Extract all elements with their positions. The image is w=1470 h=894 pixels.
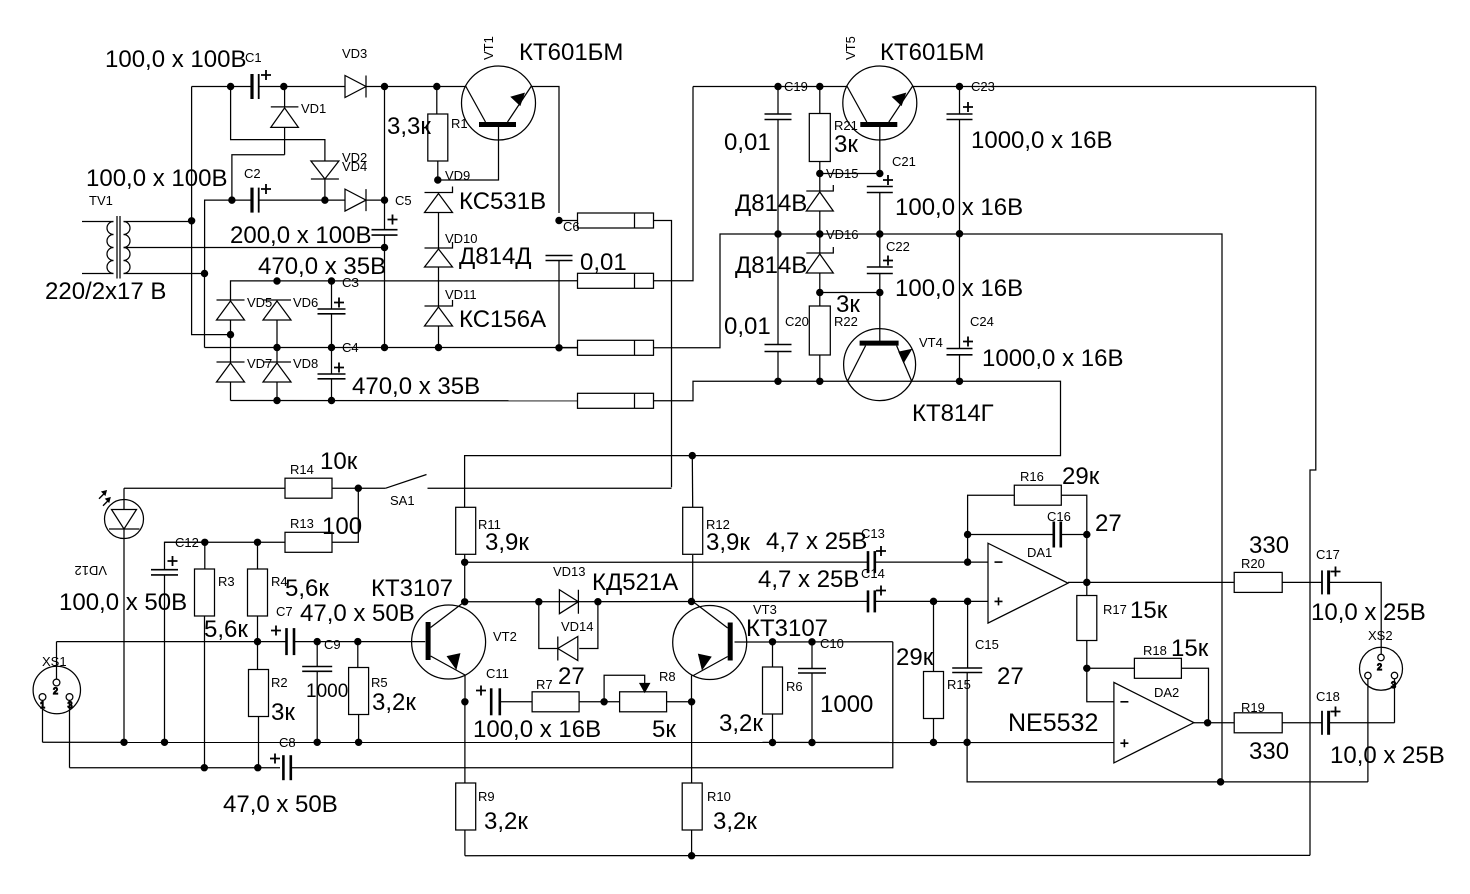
resistor R2	[249, 670, 269, 717]
wire C13 to DA1 minus	[875, 561, 988, 563]
wire VT1 emitter to C6 column	[531, 87, 559, 214]
svg-text:0,01: 0,01	[580, 249, 627, 276]
wire VD11 to mid rail	[438, 326, 440, 348]
resistor R6	[763, 667, 783, 714]
node VT4 base node	[877, 289, 883, 295]
value label 100,0 x 16В (C11)	[473, 716, 601, 743]
switch SA1 label	[390, 493, 415, 508]
wire XS2 pin1 lead	[1367, 679, 1369, 782]
value label 3,3к (R1)	[387, 113, 431, 140]
type label КТ601БМ (VT1)	[519, 39, 623, 66]
svg-text:3,2к: 3,2к	[372, 689, 416, 716]
value label 100,0 x 100В (C2)	[86, 165, 227, 192]
resistor R14 label	[290, 462, 314, 477]
node mid rail VD15-VD16	[817, 231, 823, 237]
resistor R15	[924, 672, 944, 719]
resistor R3	[195, 569, 215, 616]
node C9 junction	[314, 639, 320, 645]
svg-text:КТ814Г: КТ814Г	[912, 400, 994, 427]
value label 10,0 x 25В (C17)	[1311, 599, 1426, 626]
wire LED column	[123, 488, 125, 509]
svg-text:15к: 15к	[1130, 597, 1168, 624]
svg-text:10,0 x 25В: 10,0 x 25В	[1330, 742, 1445, 769]
wire return rail right	[291, 642, 893, 768]
wire return rail	[70, 767, 281, 769]
resistor R1 label	[451, 116, 468, 131]
svg-text:NE5532: NE5532	[1008, 709, 1098, 737]
diode VD15 label	[826, 166, 859, 181]
svg-text:4,7 x 25В: 4,7 x 25В	[758, 566, 859, 593]
wire C1 right to VD3	[260, 86, 346, 88]
wire LED to ground rail	[123, 529, 125, 742]
value label 3к (R21)	[834, 131, 858, 158]
value label 5,6к (R3)	[204, 616, 248, 643]
wire XS1 pin2 to input row	[56, 642, 58, 679]
capacitor C5	[372, 230, 398, 235]
diode VD4 label	[342, 159, 367, 174]
capacitor C2 label	[244, 166, 261, 181]
wire C10 bottom stem	[811, 673, 813, 743]
diode VD13 label	[553, 564, 586, 579]
wire R10 bottom	[691, 830, 693, 856]
svg-text:47,0 x 50В: 47,0 x 50В	[223, 791, 338, 818]
wire C15 bottom stem	[966, 673, 968, 743]
capacitor C7 label	[276, 604, 293, 619]
wire zener mid rail right	[778, 234, 1222, 782]
zener VD9	[425, 187, 453, 213]
svg-text:VD13: VD13	[553, 564, 586, 579]
svg-text:C5: C5	[395, 193, 412, 208]
resistor R10 label	[707, 789, 731, 804]
plus sign C23	[963, 102, 973, 112]
type label КС531В	[459, 188, 546, 215]
value label 27 (C15)	[997, 663, 1024, 690]
svg-text:VT4: VT4	[919, 335, 943, 350]
zener VD10	[425, 242, 453, 267]
node C5 top junction	[381, 197, 387, 203]
node VD13 right stub	[595, 599, 601, 605]
svg-text:R22: R22	[834, 314, 858, 329]
resistor R22	[809, 306, 830, 355]
wire VT3 collector to C14	[692, 600, 869, 602]
wire C5 bottom to mid rail	[384, 235, 386, 347]
capacitor C18 label	[1316, 689, 1340, 704]
wire C19 bottom stem	[777, 120, 779, 235]
node mid rail C23-C24	[956, 231, 962, 237]
plus sign C4	[334, 363, 344, 373]
value label 3,2к (R6)	[719, 710, 763, 737]
transistor VT3 label	[753, 602, 777, 617]
capacitor C13 label	[861, 526, 885, 541]
transistor VT4 label	[919, 335, 943, 350]
transistor VT2 label	[493, 629, 517, 644]
zener VD11	[425, 300, 453, 326]
capacitor C16	[1054, 522, 1061, 548]
wire center-tap column to mid rail	[204, 274, 206, 348]
wire C20 bottom stem	[777, 352, 779, 382]
wire C22 bottom stem	[879, 274, 881, 293]
node VD5-VD7 junction	[227, 332, 233, 338]
wire R1 bottom	[437, 161, 439, 180]
wire R8 to VT3 emitter	[667, 701, 692, 703]
wire R12 bottom stub	[692, 555, 694, 601]
svg-text:VD8: VD8	[293, 356, 318, 371]
wire VD16-R22 to C22 link	[820, 292, 880, 294]
diode VD1 label	[301, 101, 326, 116]
value label 0,01 (C19)	[724, 129, 771, 156]
wire C15 top stem	[967, 601, 969, 668]
type label КТ3107 (VT3)	[746, 615, 828, 642]
value label 3к (R2)	[271, 699, 295, 726]
capacitor C9	[302, 667, 332, 672]
capacitor C14 label	[861, 566, 885, 581]
node VD15 top	[817, 170, 823, 176]
wire R16 right	[1061, 495, 1087, 534]
connector XS2 label	[1368, 628, 1393, 643]
node gnd C12	[161, 739, 167, 745]
wire bias rail	[165, 541, 258, 543]
svg-text:VT1: VT1	[481, 36, 496, 60]
wire VT5 emitter link	[820, 173, 880, 175]
value label 0,01 (C20)	[724, 313, 771, 340]
wire XS1 pin3 to return rail	[69, 701, 71, 768]
svg-text:1000: 1000	[306, 681, 348, 702]
wire VD6 anode	[276, 320, 278, 362]
svg-text:2: 2	[53, 686, 58, 696]
node return R2	[255, 765, 261, 771]
wire C12 bottom stem	[164, 575, 166, 742]
node output common	[1218, 779, 1224, 785]
opamp DA1 label	[1027, 545, 1052, 560]
wire C10 top stem	[811, 642, 813, 669]
plus sign C18	[1331, 707, 1341, 717]
node R4 top	[254, 539, 260, 545]
wire VD1 bottom left-down to C2 row	[232, 155, 285, 200]
wire R3 bottom lead	[204, 616, 206, 768]
wire C16 left link	[968, 534, 1054, 536]
svg-text:КТ3107: КТ3107	[746, 615, 828, 642]
wire secondary center tap	[124, 247, 385, 249]
node C3 top junction	[328, 278, 334, 284]
connector pin row 4	[578, 393, 654, 408]
svg-text:29к: 29к	[1062, 463, 1100, 490]
wire output common to XS2 pin1	[1221, 781, 1368, 783]
type label КТ601БМ (VT5)	[880, 39, 984, 66]
type label КТ814Г	[912, 400, 994, 427]
node R5 top junction	[355, 639, 361, 645]
capacitor C21 label	[892, 154, 916, 169]
capacitor C9 label	[324, 637, 341, 652]
value label 1000 (C9)	[306, 681, 348, 702]
svg-text:C11: C11	[486, 666, 509, 681]
capacitor C2	[252, 188, 259, 213]
wire conn4 right to VT4 rail	[654, 381, 779, 401]
capacitor C13	[868, 551, 875, 573]
wire R4 bottom lead	[257, 616, 259, 670]
svg-text:C8: C8	[279, 735, 296, 750]
node R15 top	[930, 598, 936, 604]
node DA1 output	[1084, 579, 1090, 585]
node secondary-top junction	[189, 218, 195, 224]
wire bridge top rail	[231, 281, 578, 300]
opamp DA2 label	[1154, 685, 1179, 700]
op-amp DA2	[1114, 682, 1194, 763]
capacitor C10 label	[820, 636, 844, 651]
svg-text:100,0 x 16В: 100,0 x 16В	[473, 716, 601, 743]
capacitor C20	[765, 345, 792, 352]
node C24 bottom	[956, 378, 962, 384]
node gnd R5	[356, 739, 362, 745]
capacitor C16 label	[1047, 509, 1071, 524]
node C19 top	[775, 83, 781, 89]
wire C4 bottom stem	[331, 379, 333, 401]
svg-text:C1: C1	[245, 50, 262, 65]
capacitor C11	[491, 688, 500, 715]
svg-text:10к: 10к	[320, 448, 358, 475]
value label 5,6к (R4)	[285, 575, 329, 602]
value label 5к (R8)	[652, 716, 676, 743]
value label 330 (R19)	[1249, 738, 1289, 765]
wire VD3 to VT1 rail	[366, 86, 466, 88]
value label 4,7 x 25В (C13)	[766, 528, 867, 555]
svg-text:R20: R20	[1241, 556, 1265, 571]
svg-text:C13: C13	[861, 526, 885, 541]
wire conn2 right up to top-right rail	[654, 87, 694, 281]
svg-text:470,0 x 35В: 470,0 x 35В	[352, 373, 480, 400]
value label 330 (R20)	[1249, 532, 1289, 559]
diode VD14 label	[561, 619, 594, 634]
svg-text:VD16: VD16	[826, 227, 859, 242]
resistor R11 label	[478, 517, 501, 532]
capacitor C18	[1322, 711, 1329, 735]
wire R15 bottom lead	[933, 719, 935, 743]
connector XS1	[33, 666, 80, 713]
resistor R2 label	[271, 675, 288, 690]
svg-text:10,0 x 25В: 10,0 x 25В	[1311, 599, 1426, 626]
svg-text:1000,0 x 16В: 1000,0 x 16В	[982, 345, 1123, 372]
wire DA1 feedback vertical	[967, 535, 969, 563]
value label 200,0 x 100В	[230, 222, 371, 249]
diode VD16 label	[826, 227, 859, 242]
wire R21 bottom	[819, 162, 821, 192]
value label 100,0 x 16В (C21)	[895, 194, 1023, 221]
node R11 bottom rail	[462, 559, 468, 565]
wire VD15 anode	[819, 211, 821, 253]
wire C2 row to transformer bottom lead	[205, 200, 232, 273]
wire R22 bottom	[819, 355, 821, 381]
wire input row	[57, 641, 287, 643]
resistor R17 label	[1103, 602, 1127, 617]
capacitor C6	[546, 256, 573, 261]
svg-text:VD12: VD12	[74, 563, 107, 578]
node R17-R18	[1084, 665, 1090, 671]
value label 470,0 x 35В (C3)	[258, 253, 386, 280]
wire C14 to DA1 plus	[875, 600, 988, 602]
wire R13 left	[258, 541, 286, 543]
svg-text:VD11: VD11	[445, 287, 477, 302]
value label 3,2к (R10)	[713, 808, 757, 835]
capacitor C15	[952, 668, 982, 673]
diode VD3 label	[342, 46, 367, 61]
value label 27 (VD14)	[558, 663, 585, 690]
svg-text:Д814В: Д814В	[735, 252, 807, 279]
svg-text:R7: R7	[536, 677, 553, 692]
node DA2 output	[1205, 720, 1211, 726]
capacitor C3 label	[342, 275, 359, 290]
type label NE5532	[1008, 709, 1098, 737]
wire C9 top stem	[316, 642, 318, 667]
resistor R12	[683, 507, 703, 554]
node R6 top	[769, 639, 775, 645]
svg-text:330: 330	[1249, 532, 1289, 559]
svg-text:4,7 x 25В: 4,7 x 25В	[766, 528, 867, 555]
svg-text:3к: 3к	[271, 699, 295, 726]
value label 47,0 x 50В (C8)	[223, 791, 338, 818]
svg-text:3к: 3к	[834, 131, 858, 158]
node C20 bottom	[775, 378, 781, 384]
resistor R21 label	[834, 118, 858, 133]
diode VD3	[345, 76, 366, 98]
node gnd C9	[314, 739, 320, 745]
svg-text:C18: C18	[1316, 689, 1340, 704]
diode VD8	[263, 362, 291, 382]
plus sign C7	[271, 626, 281, 636]
diode VD6	[263, 300, 291, 320]
svg-text:200,0 x 100В: 200,0 x 100В	[230, 222, 371, 249]
resistor R9	[456, 783, 476, 830]
connector XS1 label	[42, 654, 67, 669]
wire VD4 to C5 column	[366, 199, 385, 201]
resistor R18 label	[1143, 643, 1167, 658]
svg-text:R8: R8	[659, 669, 676, 684]
capacitor C7	[287, 628, 295, 655]
node R10 bottom	[689, 853, 695, 859]
svg-text:VD5: VD5	[247, 295, 272, 310]
capacitor C6 label	[563, 219, 580, 234]
op-amp DA1	[988, 543, 1068, 623]
node R4-R2-C7	[254, 639, 260, 645]
svg-text:C19: C19	[784, 79, 808, 94]
wire C12 top stem	[165, 542, 205, 569]
svg-text:5,6к: 5,6к	[285, 575, 329, 602]
node gnd C10	[809, 739, 815, 745]
wire conn1 left	[559, 220, 578, 222]
plus sign C1	[261, 70, 271, 80]
node C10 top	[809, 639, 815, 645]
wire ground rail	[43, 741, 1115, 743]
capacitor C10	[798, 669, 826, 674]
resistor R10	[682, 783, 702, 830]
resistor R16 label	[1020, 469, 1044, 484]
svg-text:C15: C15	[975, 637, 999, 652]
svg-text:КТ601БМ: КТ601БМ	[519, 39, 623, 66]
wire XS1 pin1 to ground rail	[42, 701, 44, 743]
wire C9 bottom stem	[316, 671, 318, 742]
value label 3,9к (R12)	[706, 529, 750, 556]
wire C4 top stem	[331, 348, 333, 375]
svg-text:Д814В: Д814В	[735, 190, 807, 217]
wire VD9 to VD10	[438, 213, 440, 249]
wire bridge bottom rail	[231, 400, 578, 402]
wire R16 left	[968, 495, 1015, 534]
svg-text:R18: R18	[1143, 643, 1167, 658]
svg-text:C17: C17	[1316, 547, 1340, 562]
diode VD14	[558, 637, 578, 661]
node return R3	[201, 765, 207, 771]
svg-text:R3: R3	[218, 574, 235, 589]
node VD13 left stub	[536, 599, 542, 605]
capacitor C23 label	[971, 79, 995, 94]
wire conn1 right to bus	[654, 221, 672, 488]
resistor R5 label	[371, 675, 388, 690]
value label 4,7 x 25В (C14)	[758, 566, 859, 593]
node mid rail zener chain	[435, 344, 441, 350]
wire R6 top lead	[772, 642, 774, 667]
resistor R5	[349, 668, 369, 715]
capacitor C15 label	[975, 637, 999, 652]
svg-text:27: 27	[558, 663, 585, 690]
node R12 top	[689, 453, 695, 459]
node R22 top	[817, 289, 823, 295]
svg-text:XS2: XS2	[1368, 628, 1393, 643]
resistor R15 label	[947, 677, 971, 692]
diode VD1	[271, 87, 299, 155]
wire secondary bottom lead	[124, 273, 205, 275]
node gnd LED	[121, 739, 127, 745]
svg-text:TV1: TV1	[89, 193, 113, 208]
wire C17 to XS2 pin2	[1329, 582, 1382, 654]
plus sign C17	[1331, 567, 1341, 577]
diode VD5 label	[247, 295, 272, 310]
plus sign C14	[876, 586, 886, 596]
wire R2 bottom lead	[258, 717, 260, 768]
wire R7 to R8	[579, 701, 620, 703]
wire C2 to VD4	[260, 199, 346, 201]
diode VD7 label	[247, 356, 272, 371]
svg-text:СЗ: СЗ	[342, 275, 359, 290]
value label 47,0 x 50В (C7)	[300, 600, 415, 627]
capacitor C19	[765, 114, 792, 120]
node mid rail C19-C20	[775, 231, 781, 237]
diode VD2	[311, 161, 339, 179]
wire SA1 to supply bus	[428, 487, 672, 489]
transistor VT5 label	[843, 36, 858, 60]
wire XS2 pin3 lead	[1394, 679, 1396, 723]
diode VD11 label	[445, 287, 477, 302]
node C6 top junction	[556, 217, 562, 223]
wire R5 top stem	[357, 642, 359, 668]
svg-text:R5: R5	[371, 675, 388, 690]
svg-text:27: 27	[1095, 510, 1122, 537]
svg-text:220/2x17 В: 220/2x17 В	[45, 278, 166, 305]
node gnd R15	[930, 739, 936, 745]
transformer TV1	[82, 216, 130, 279]
plus sign C5	[388, 215, 398, 225]
node center-tap junction	[381, 244, 387, 250]
node mid rail C6	[556, 345, 562, 351]
wire C3 top stem	[331, 281, 333, 309]
node gnd R6	[769, 739, 775, 745]
zener VD15	[806, 185, 833, 211]
value label 1000 (C10)	[820, 691, 873, 718]
wire C24 bottom stem	[959, 355, 961, 382]
wire VD16 anode	[819, 273, 821, 306]
plus sign C13	[876, 546, 886, 556]
value label 29к (R16)	[1062, 463, 1100, 490]
wire R1 top	[436, 87, 438, 115]
wire VT3 emitter to R10	[691, 702, 693, 783]
svg-text:VD14: VD14	[561, 619, 594, 634]
